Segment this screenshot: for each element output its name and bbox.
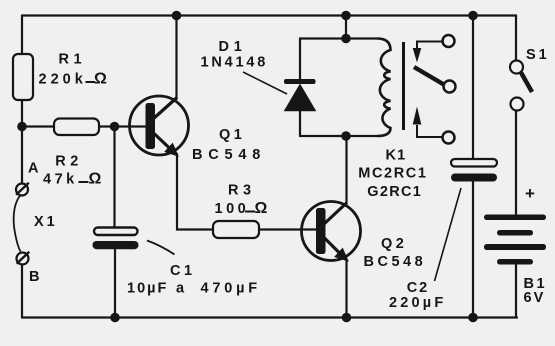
node C2 / top rail	[468, 11, 478, 21]
svg-text:R3: R3	[228, 183, 256, 199]
leader line C1	[147, 241, 175, 255]
node C1 / bottom rail	[110, 313, 120, 323]
svg-text:S1: S1	[526, 47, 550, 63]
wire Q2 emitter	[345, 259, 347, 318]
svg-text:220µF: 220µF	[389, 295, 446, 311]
svg-text:K1: K1	[386, 148, 407, 164]
svg-text:470µF: 470µF	[201, 281, 261, 297]
node coil bottom / Q2 collector	[341, 131, 351, 141]
wire right rail upper	[515, 16, 517, 61]
diode D1	[201, 39, 316, 111]
wire bottom rail	[22, 316, 517, 318]
wire R2 right lead to Q1 base	[99, 125, 146, 127]
wire R2 left lead	[22, 125, 54, 127]
node D1 branch T	[341, 34, 351, 44]
node R2 / left rail	[17, 122, 27, 132]
wire C1 bottom lead	[114, 248, 116, 318]
relay contact bottom	[413, 107, 455, 144]
node Q2 emitter / bottom rail	[342, 313, 352, 323]
svg-text:Q1: Q1	[219, 127, 245, 143]
svg-text:B: B	[29, 269, 39, 285]
wire coil bottom horizontal	[300, 135, 377, 137]
svg-text:220k: 220k	[39, 72, 87, 88]
wire C2 top lead	[472, 16, 474, 160]
svg-text:6V: 6V	[524, 290, 546, 306]
resistor R3	[213, 183, 268, 239]
wire Q2 collector	[345, 136, 347, 202]
wire left rail upper	[21, 16, 23, 55]
transistor Q2	[302, 202, 427, 271]
wire left rail R1 to R2 junction	[21, 100, 23, 184]
relay contact top	[413, 35, 455, 63]
svg-text:BC548: BC548	[364, 254, 427, 270]
wire C2 bottom lead	[472, 182, 474, 318]
svg-text:1N4148: 1N4148	[201, 55, 269, 71]
svg-text:MC2RC1: MC2RC1	[358, 166, 427, 182]
svg-text:X1: X1	[34, 214, 58, 230]
svg-text:Q2: Q2	[381, 236, 407, 252]
wire X1 curvy link	[14, 196, 21, 252]
svg-text:100: 100	[215, 201, 250, 217]
relay coil K1	[358, 39, 427, 201]
capacitor C2	[389, 159, 497, 311]
svg-text:+: +	[525, 184, 535, 203]
wire R3 right lead to Q2 base	[259, 228, 317, 230]
wire battery to bottom rail	[515, 265, 517, 318]
svg-text:BC548: BC548	[192, 147, 266, 163]
wire D1 vertical upper	[299, 39, 301, 80]
terminal A (X1)	[16, 161, 39, 196]
svg-text:a: a	[176, 281, 185, 297]
svg-text:G2RC1: G2RC1	[367, 184, 422, 200]
wire top rail to D1 branch	[345, 16, 347, 39]
svg-text:10µF: 10µF	[127, 281, 168, 297]
battery B1	[484, 184, 547, 306]
resistor R2	[43, 119, 102, 188]
relay frame bar	[402, 42, 405, 130]
wire C1 top lead	[113, 127, 115, 228]
wire left rail below B to bottom	[21, 266, 23, 318]
svg-text:47k: 47k	[43, 172, 78, 188]
terminal B (X1)	[17, 252, 40, 285]
svg-text:R2: R2	[55, 154, 83, 170]
svg-text:Ω: Ω	[94, 71, 107, 88]
relay armature blade	[414, 67, 456, 93]
resistor R1	[13, 52, 107, 100]
svg-text:R1: R1	[59, 52, 87, 68]
svg-text:Ω: Ω	[255, 200, 268, 217]
svg-text:Ω: Ω	[89, 171, 102, 188]
svg-text:C2: C2	[407, 280, 430, 296]
wire D1 vertical lower	[299, 111, 301, 137]
capacitor C1	[93, 228, 261, 297]
node Q1 collector / top rail	[172, 11, 182, 21]
node C2 / bottom rail	[468, 313, 478, 323]
wire S1 to battery	[515, 111, 517, 215]
wire Q1 collector	[175, 16, 177, 100]
leader line C2	[435, 188, 462, 281]
wire Q1 emitter down and right to R3	[177, 154, 213, 230]
svg-text:D1: D1	[219, 39, 247, 55]
wire D1 branch top horizontal	[300, 37, 377, 39]
svg-text:C1: C1	[170, 263, 196, 279]
leader line D1	[243, 72, 287, 94]
svg-text:A: A	[28, 161, 39, 177]
switch S1	[510, 47, 550, 111]
node R2 / C1	[110, 122, 120, 132]
transistor Q1	[130, 96, 267, 163]
node D1 branch / top rail	[341, 11, 351, 21]
wire top rail	[22, 14, 516, 16]
